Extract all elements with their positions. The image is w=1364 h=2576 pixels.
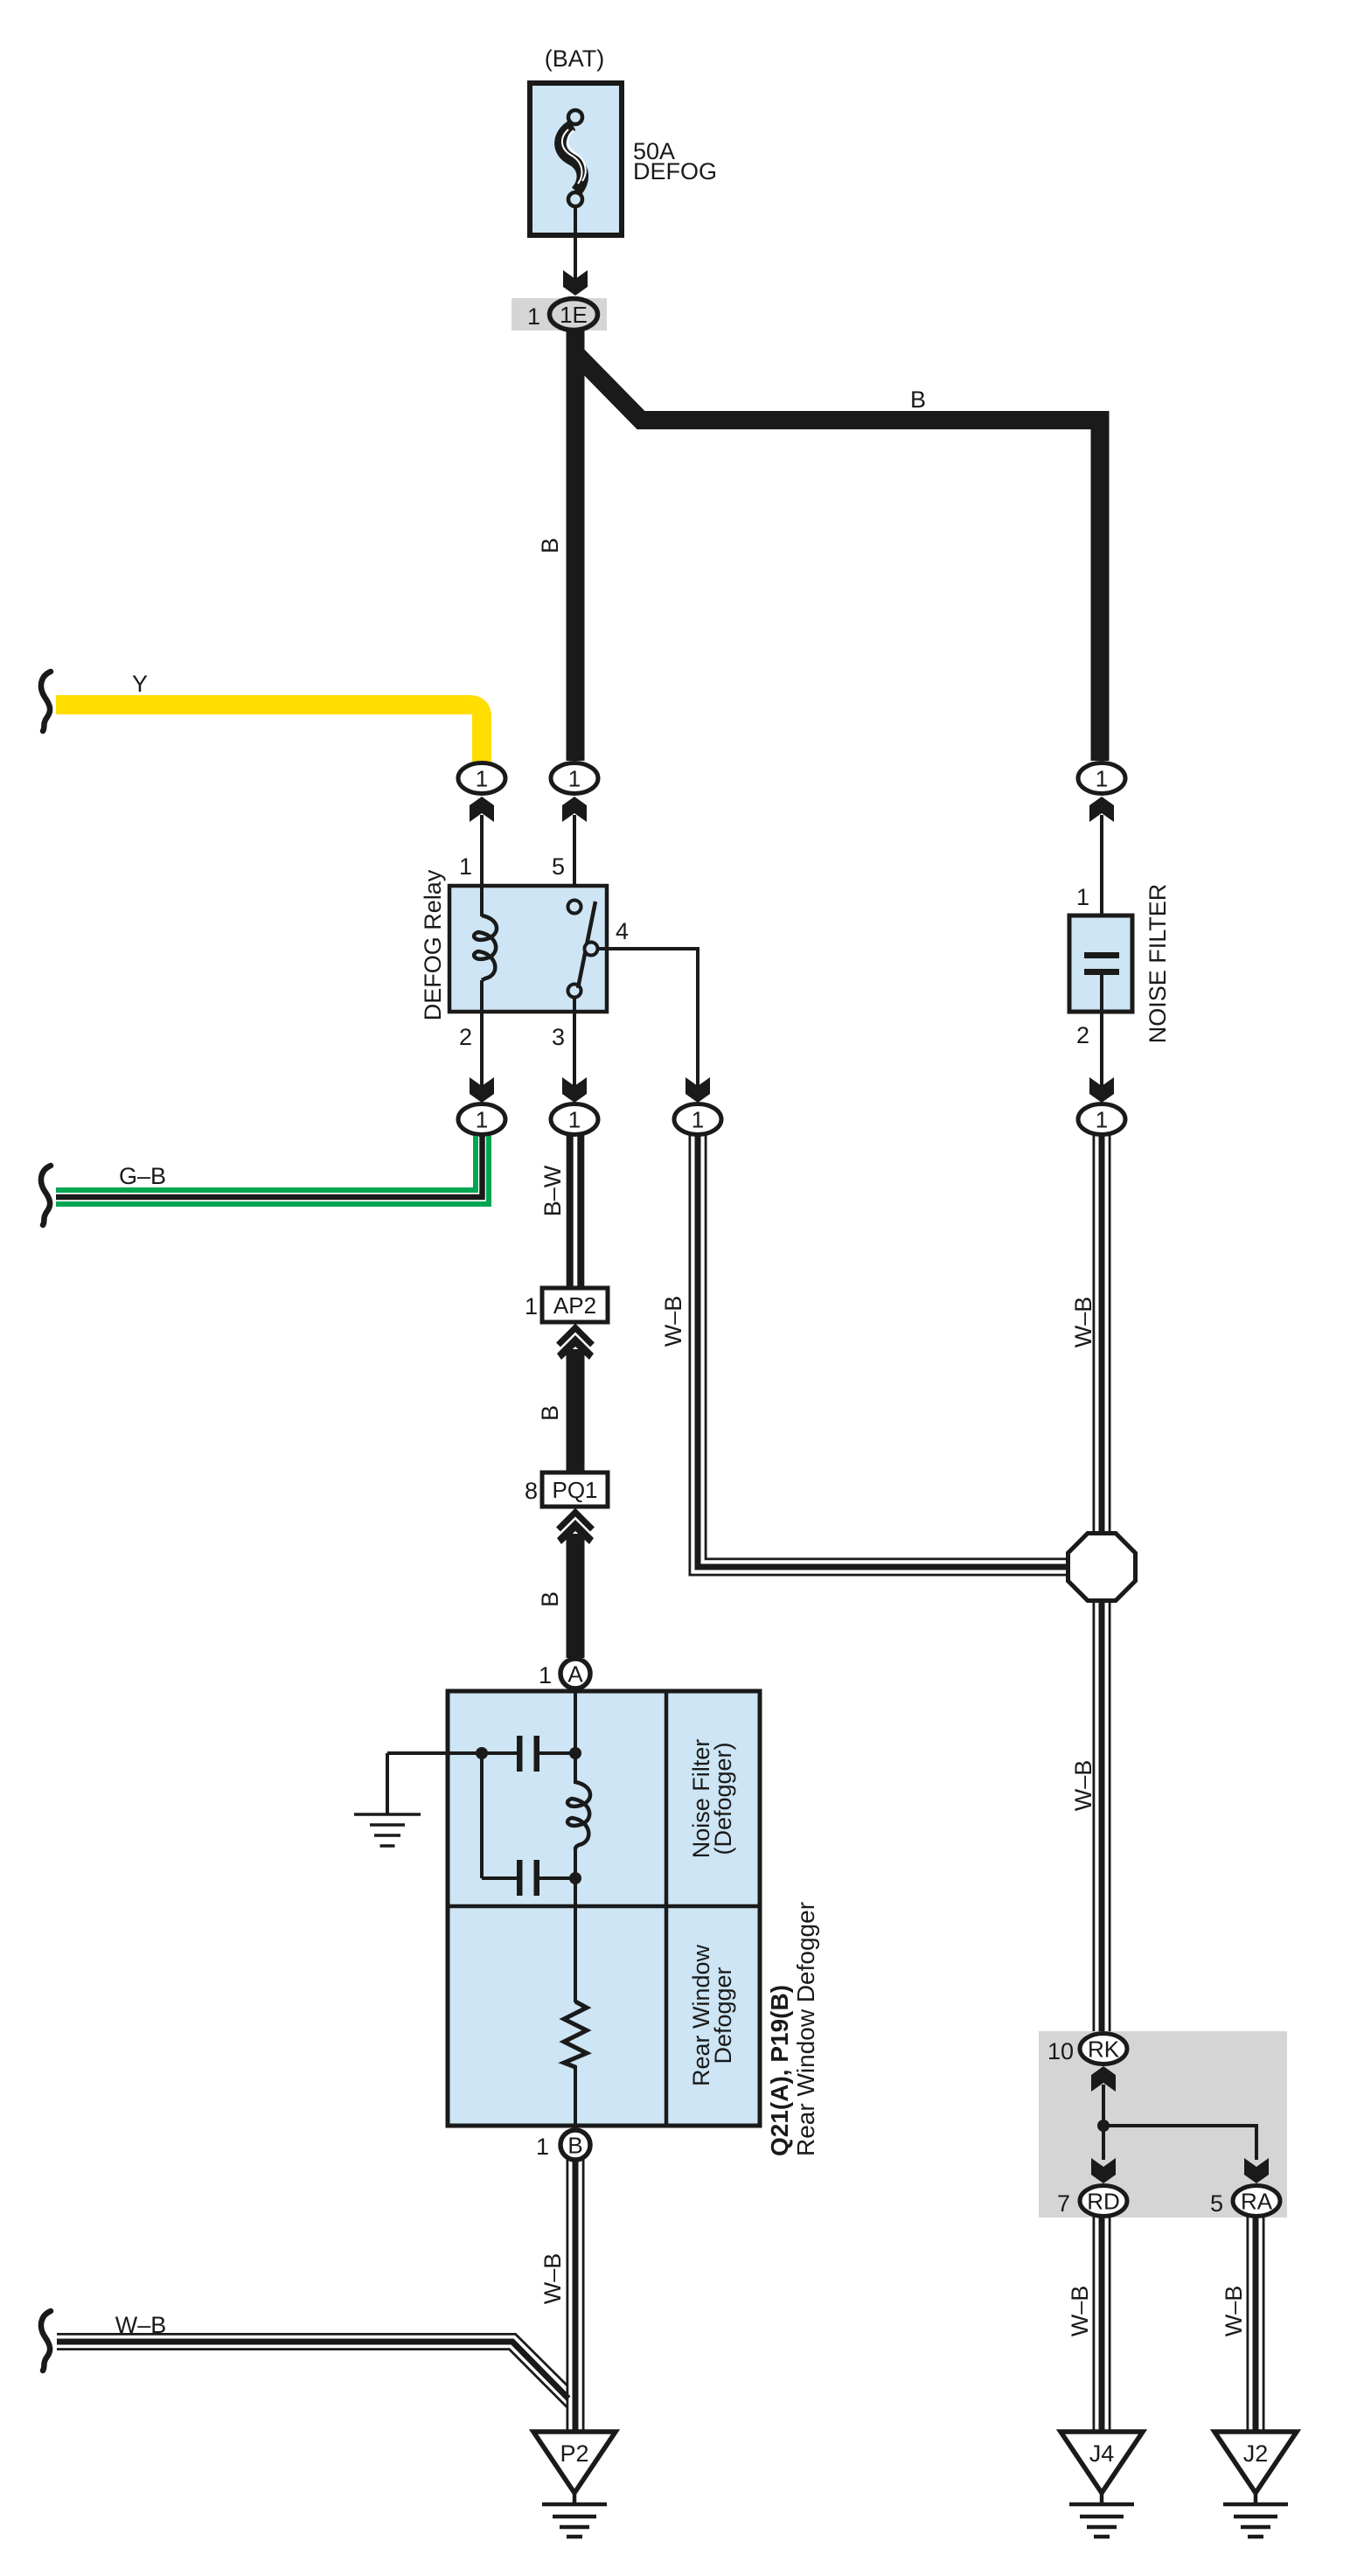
svg-text:Rear Window Defogger: Rear Window Defogger xyxy=(792,1902,819,2156)
connector RK pin 10 xyxy=(1047,2034,1127,2092)
svg-text:10: 10 xyxy=(1047,2038,1074,2064)
svg-text:1: 1 xyxy=(476,1107,488,1133)
svg-text:NOISE FILTER: NOISE FILTER xyxy=(1145,884,1171,1044)
resistor (defogger heating element) xyxy=(564,2002,587,2128)
fuse 50A DEFOG (BAT) xyxy=(530,45,717,235)
wire W-B defogger B to ground P2 xyxy=(539,2160,585,2432)
svg-text:1: 1 xyxy=(476,766,488,792)
svg-text:1: 1 xyxy=(1096,766,1108,792)
connector AP2 xyxy=(525,1288,608,1322)
svg-text:1E: 1E xyxy=(560,302,588,328)
svg-text:W–B: W–B xyxy=(1067,2286,1093,2337)
wire Y (yellow) to relay pin1 connector xyxy=(41,671,482,762)
svg-text:W–B: W–B xyxy=(539,2253,566,2305)
svg-text:B: B xyxy=(567,2133,582,2159)
connector 1 (yellow wire / relay pin 1) xyxy=(458,763,505,887)
svg-text:RD: RD xyxy=(1087,2189,1120,2215)
wire RK to splice dot xyxy=(1097,2085,1256,2160)
svg-text:(BAT): (BAT) xyxy=(545,45,605,72)
noise filter (defogger) capacitors and coil xyxy=(387,1688,590,2002)
svg-text:1: 1 xyxy=(539,1662,552,1688)
wire W-B relay pin4 to junction xyxy=(660,1134,1068,1575)
relay DEFOG Relay xyxy=(420,853,629,1050)
connector 1 (relay pin 2 / G-B) xyxy=(458,1104,505,1135)
svg-text:2: 2 xyxy=(1076,1022,1089,1048)
svg-text:Defogger: Defogger xyxy=(710,1967,736,2064)
relay switch contacts (pins 5-3) xyxy=(568,901,598,1013)
svg-text:W–B: W–B xyxy=(1070,1297,1096,1348)
relay coil (pins 1-2) xyxy=(474,886,497,1012)
wire noise filter pin2 down xyxy=(1089,1012,1114,1103)
wire B-W relay pin3 to AP2 xyxy=(539,1134,584,1288)
svg-text:1: 1 xyxy=(527,303,540,330)
svg-text:1: 1 xyxy=(536,2134,549,2160)
wire relay pin 3 down xyxy=(562,1012,587,1103)
svg-text:8: 8 xyxy=(525,1478,538,1504)
svg-text:A: A xyxy=(567,1661,583,1688)
wire W-B RD to ground J4 xyxy=(1067,2216,1111,2432)
connector RA pin 5 xyxy=(1210,2158,1280,2217)
wire B (thick) 1E to relay pin5 connector xyxy=(537,331,585,761)
svg-text:5: 5 xyxy=(552,853,565,880)
noise filter NOISE FILTER xyxy=(1069,884,1171,1048)
wire W-B from harness (brace) xyxy=(41,2311,568,2407)
svg-text:7: 7 xyxy=(1057,2190,1070,2217)
svg-text:B–W: B–W xyxy=(539,1165,566,1216)
svg-text:1: 1 xyxy=(525,1293,538,1319)
svg-text:DEFOG: DEFOG xyxy=(633,158,717,184)
svg-text:1: 1 xyxy=(459,853,472,880)
ground (defogger noise filter) xyxy=(354,1753,421,1846)
svg-text:W–B: W–B xyxy=(115,2312,167,2338)
ground J4 xyxy=(1061,2432,1143,2537)
svg-text:B: B xyxy=(910,386,926,413)
arrow into pin4 connector xyxy=(685,1077,710,1103)
connector RD pin 7 xyxy=(1057,2158,1127,2217)
svg-text:B: B xyxy=(537,1405,563,1421)
connector B (defogger) xyxy=(536,2130,590,2160)
svg-text:1: 1 xyxy=(1096,1107,1108,1133)
svg-text:W–B: W–B xyxy=(1070,1760,1096,1812)
svg-text:1: 1 xyxy=(1076,884,1089,910)
ground J2 xyxy=(1214,2432,1297,2537)
wire G-B (green-black) from relay pin2 connector xyxy=(41,1136,489,1225)
connector 1 (relay pin 3 / B-W) xyxy=(551,1104,598,1135)
junction (octagon splice) xyxy=(1068,1534,1136,1601)
wire relay pin 2 down xyxy=(470,1012,494,1103)
svg-text:W–B: W–B xyxy=(1221,2286,1247,2337)
wire W-B junction to RK xyxy=(1070,1600,1111,2033)
svg-text:5: 5 xyxy=(1210,2190,1223,2217)
svg-text:Q21(A), P19(B): Q21(A), P19(B) xyxy=(766,1985,793,2156)
connector 1 (B wire / relay pin 5) xyxy=(551,763,598,902)
svg-text:DEFOG Relay: DEFOG Relay xyxy=(420,869,446,1020)
svg-text:B: B xyxy=(537,538,563,553)
wire B (arrow into AP2, to PQ1) xyxy=(537,1328,594,1473)
svg-text:RA: RA xyxy=(1241,2189,1273,2215)
svg-text:Y: Y xyxy=(132,671,148,697)
svg-text:J2: J2 xyxy=(1243,2440,1269,2467)
wire B branch to noise filter (top) xyxy=(575,353,1100,761)
connector 1 (B wire / noise filter pin 1) xyxy=(1078,763,1125,916)
wire B (arrow into PQ1, to defogger A) xyxy=(537,1513,594,1659)
connector PQ1 xyxy=(525,1472,608,1507)
connector block (gray) RK / RD / RA xyxy=(1039,2031,1287,2217)
connector 1E (junction block) xyxy=(511,298,607,331)
svg-text:4: 4 xyxy=(616,918,629,944)
ground P2 xyxy=(533,2432,616,2537)
wire W-B RA to ground J2 xyxy=(1221,2216,1265,2432)
svg-text:1: 1 xyxy=(568,766,581,792)
svg-text:1: 1 xyxy=(692,1107,704,1133)
svg-text:2: 2 xyxy=(459,1024,472,1050)
svg-text:P2: P2 xyxy=(560,2440,588,2467)
svg-text:B: B xyxy=(537,1591,563,1607)
svg-text:G–B: G–B xyxy=(119,1163,166,1189)
connector 1 (noise filter pin 2 / W-B) xyxy=(1078,1104,1125,1135)
rear window defogger assembly Q21(A),P19(B) xyxy=(448,1691,819,2156)
connector 1 (relay pin 4 / W-B) xyxy=(674,1104,721,1135)
svg-text:AP2: AP2 xyxy=(553,1292,596,1319)
wire W-B noise filter to junction xyxy=(1070,1134,1111,1536)
svg-text:(Defogger): (Defogger) xyxy=(710,1742,736,1855)
connector A (defogger) xyxy=(539,1659,590,1688)
wire relay pin 4 xyxy=(597,947,699,1091)
svg-text:1: 1 xyxy=(568,1107,581,1133)
wire: fuse to connector 1E xyxy=(563,206,588,296)
svg-text:J4: J4 xyxy=(1089,2440,1115,2467)
svg-text:W–B: W–B xyxy=(660,1296,686,1347)
svg-text:3: 3 xyxy=(552,1024,565,1050)
svg-text:RK: RK xyxy=(1088,2036,1120,2063)
svg-text:PQ1: PQ1 xyxy=(552,1477,597,1503)
